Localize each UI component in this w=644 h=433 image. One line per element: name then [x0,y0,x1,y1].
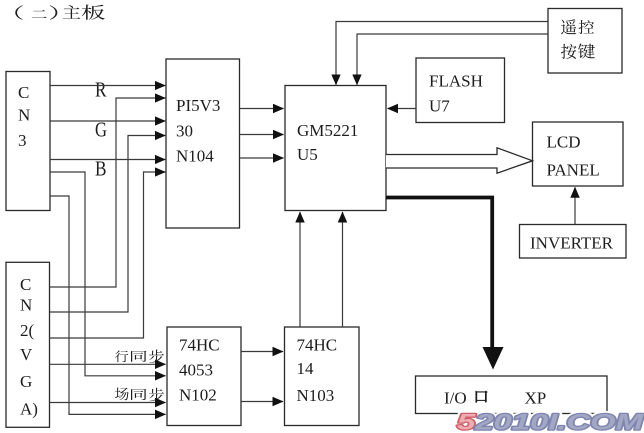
svg-text:N103: N103 [297,386,335,405]
svg-text:14: 14 [297,359,315,378]
svg-text:G: G [20,372,32,391]
svg-text:74HC: 74HC [297,336,338,355]
label 场同步 (V sync) [115,388,164,402]
svg-text:PANEL: PANEL [547,161,600,180]
svg-text:U5: U5 [297,145,318,164]
svg-text:FLASH: FLASH [429,72,483,91]
wire 行同步 CN2 to 74HC4053 [50,363,166,365]
thick wire GM5221 to I/O [386,198,492,349]
svg-text:N: N [18,106,30,125]
svg-text:XP: XP [525,389,547,408]
wire 74HC14 to GM5221 bottom a [299,212,301,327]
svg-text:52010I.COM: 52010I.COM [457,410,644,433]
svg-text:PI5V3: PI5V3 [176,96,220,115]
svg-text:U7: U7 [429,97,450,116]
svg-text:GM5221: GM5221 [297,121,358,140]
wire PI5V330 to GM5221 ch1 [240,108,284,110]
wire 74HC14 to GM5221 bottom b [342,212,344,327]
IC 74HC14 N103 [285,327,360,426]
svg-text:3: 3 [18,131,27,150]
label 行同步 (H sync) [115,350,164,363]
svg-text:I/O: I/O [444,389,467,408]
IC GM5221 U5 [285,86,386,211]
svg-text:4053: 4053 [179,361,213,380]
svg-text:30: 30 [176,122,193,141]
block I/O port XP [416,376,608,414]
wire R2: CN2 riser to PI5V330 [50,98,166,287]
wire PI5V330 to GM5221 ch2 [240,134,284,136]
wire 74HC4053 to 74HC14 ch2 [241,401,283,403]
svg-text:74HC: 74HC [179,336,220,355]
block INVERTER [520,225,627,259]
svg-text:2(: 2( [20,321,35,340]
wire B2: CN2 riser to PI5V330 [50,172,166,338]
connector CN3 [6,72,50,211]
wire hsync: CN3 down to 74HC4053 [50,172,166,376]
watermark 52010I.COM [457,410,644,433]
wire PI5V330 to GM5221 ch3 [240,157,284,159]
wire remote A to GM5221 top [336,22,548,85]
svg-text:C: C [20,275,31,294]
IC FLASH U7 [416,58,505,123]
wire G: CN3 to PI5V330 [50,120,165,122]
wire remote B to GM5221 top [357,34,548,85]
svg-text:V: V [20,345,33,364]
wire B: CN3 to PI5V330 [50,159,165,161]
wire R: CN3 to PI5V330 [50,85,165,87]
IC PI5V330 N104 [166,59,240,228]
svg-text:A): A) [20,400,38,419]
svg-text:C: C [18,83,29,102]
thick arrowhead at I/O [483,347,504,370]
block 遥控按键 (remote keys) [548,9,622,74]
hollow bus arrow GM5221 to LCD [386,148,533,173]
block LCD PANEL [533,122,624,186]
wire FLASH to GM5221 [388,108,417,110]
wire vsync: CN3 down to 74HC4053 [50,196,166,414]
wire INVERTER to LCD [574,187,576,224]
svg-text:R: R [95,78,107,102]
IC 74HC4053 N102 [167,327,241,426]
title （二）主板 [15,5,105,20]
svg-text:N: N [20,296,32,315]
connector CN2 (VGA) [6,262,50,427]
wire G2: CN2 riser to PI5V330 [50,136,166,313]
svg-text:INVERTER: INVERTER [530,234,614,253]
svg-text:LCD: LCD [547,133,581,152]
svg-text:N102: N102 [179,386,217,405]
wire 场同步 CN2 to 74HC4053 [50,402,166,404]
wire 74HC4053 to 74HC14 ch1 [241,351,283,353]
svg-text:N104: N104 [176,147,214,166]
